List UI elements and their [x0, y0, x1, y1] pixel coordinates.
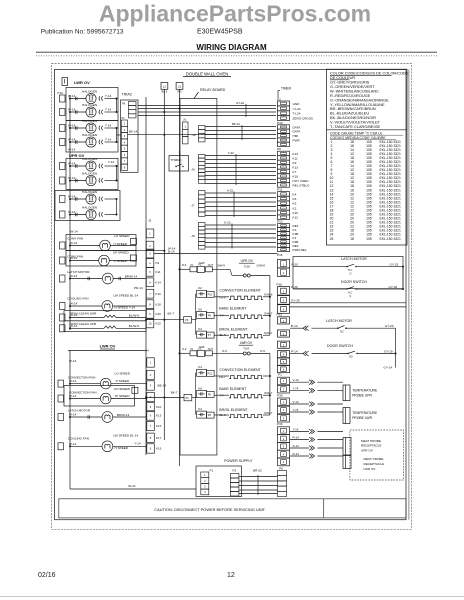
- svg-text:O-9: O-9: [222, 349, 227, 353]
- svg-text:OUT: OUT: [208, 348, 214, 351]
- svg-text:TRIAC: TRIAC: [122, 93, 133, 97]
- halogen lamp L2 (LWR OV): [70, 111, 86, 113]
- svg-text:P15: P15: [277, 253, 283, 257]
- svg-text:E30EW45PSB: E30EW45PSB: [197, 29, 243, 36]
- svg-text:FE-8: FE-8: [219, 296, 226, 300]
- svg-text:GY-29: GY-29: [384, 349, 393, 353]
- svg-text:THMDC: THMDC: [171, 158, 183, 162]
- svg-text:W-14: W-14: [70, 256, 78, 260]
- halogen lamp L1 (LWR OV): [70, 98, 86, 100]
- svg-text:UN SPEED: UN SPEED: [114, 387, 131, 391]
- halogen group box 3: [66, 159, 118, 190]
- latch motor 2 link: [395, 328, 397, 353]
- svg-text:K22: K22: [156, 322, 162, 326]
- corner box: [62, 78, 68, 86]
- svg-text:OUT: OUT: [208, 264, 214, 267]
- relay board box: [180, 99, 217, 456]
- svg-text:O-9: O-9: [260, 349, 265, 353]
- svg-text:G-22: G-22: [224, 221, 231, 225]
- svg-text:P8: P8: [277, 147, 281, 151]
- svg-text:Y-14: Y-14: [134, 441, 141, 445]
- svg-text:TEMPERATURE: TEMPERATURE: [352, 411, 378, 415]
- svg-text:UPR OV: UPR OV: [241, 259, 254, 263]
- svg-text:A-22: A-22: [227, 189, 233, 193]
- svg-text:P1: P1: [122, 116, 126, 120]
- svg-text:GY-23: GY-23: [385, 324, 394, 328]
- svg-text:UP SPEED: UP SPEED: [113, 251, 129, 255]
- halogen lamp U1 (UPR OV): [70, 165, 86, 167]
- svg-text:K4: K4: [293, 192, 297, 196]
- svg-text:GY-22: GY-22: [236, 101, 244, 105]
- svg-text:J3: J3: [148, 219, 152, 223]
- svg-text:PR-14: PR-14: [134, 286, 143, 290]
- latch-door box 1: [293, 257, 403, 289]
- svg-text:K8: K8: [198, 386, 202, 390]
- svg-text:W-14: W-14: [168, 247, 176, 251]
- bottom wire W-14: [70, 488, 196, 490]
- wire J3-3 to bus: [154, 253, 278, 255]
- svg-text:18: 18: [350, 237, 354, 241]
- svg-text:K12: K12: [293, 216, 299, 220]
- outer frame (dashed): [52, 64, 412, 530]
- svg-text:B-14: B-14: [291, 324, 298, 328]
- element output bus lower: [269, 354, 271, 416]
- svg-text:P12: P12: [58, 91, 64, 95]
- wire BK-14 to relay board: [128, 134, 217, 136]
- svg-text:LATCH MOTOR: LATCH MOTOR: [341, 257, 367, 261]
- svg-text:COLOR CODE/CODIGOS DE COLOR/CO: COLOR CODE/CODIGOS DE COLOR/CODE: [330, 72, 409, 76]
- svg-text:K19: K19: [156, 447, 162, 451]
- svg-text:NO: NO: [349, 356, 353, 359]
- svg-text:W-14: W-14: [68, 137, 76, 141]
- svg-text:HI SPEED: HI SPEED: [115, 394, 130, 398]
- svg-text:O/W-9: O/W-9: [217, 264, 226, 268]
- svg-text:T-14: T-14: [105, 107, 111, 111]
- triac box: [121, 100, 139, 172]
- svg-text:NOT USED: NOT USED: [293, 179, 310, 183]
- svg-text:W-14: W-14: [69, 379, 77, 383]
- svg-text:K9: K9: [293, 161, 297, 165]
- svg-text:POWER SUPPLY: POWER SUPPLY: [224, 459, 253, 463]
- svg-text:BROIL ELEMENT: BROIL ELEMENT: [219, 328, 248, 332]
- svg-text:P30: P30: [277, 393, 283, 397]
- svg-text:W-14: W-14: [68, 148, 76, 152]
- svg-text:J/1: J/1: [183, 118, 187, 122]
- frsh clean upr box: [64, 321, 146, 332]
- svg-text:V.-VIOLET/VIOLETA/VIOLET: V.-VIOLET/VIOLETA/VIOLET: [330, 121, 381, 125]
- svg-text:K11: K11: [293, 156, 299, 160]
- svg-text:P1: P1: [210, 469, 214, 473]
- svg-text:BR/W-14: BR/W-14: [117, 413, 130, 417]
- svg-text:L2: L2: [178, 85, 182, 89]
- svg-text:O/W-7: O/W-7: [264, 331, 273, 335]
- svg-text:WIRING DIAGRAM: WIRING DIAGRAM: [196, 43, 267, 52]
- svg-text:L SPEED: L SPEED: [114, 259, 128, 263]
- svg-text:W-14: W-14: [68, 123, 76, 127]
- svg-text:LWR OV: LWR OV: [100, 344, 116, 349]
- wire bundle GY-22 (L1/L2/triac to timer P2): [138, 105, 276, 107]
- svg-text:K14: K14: [293, 152, 299, 156]
- wire bundle T-22 (J6 to timer P8): [205, 155, 276, 157]
- left connector cells fans upper: [60, 242, 66, 249]
- svg-text:12: 12: [227, 572, 235, 579]
- svg-text:GY.-GREY/GRIS/GRIS: GY.-GREY/GRIS/GRIS: [330, 81, 370, 85]
- terminal L1: [161, 83, 168, 90]
- svg-text:W-14: W-14: [68, 94, 76, 98]
- svg-text:K16: K16: [293, 174, 299, 178]
- svg-text:O.-ORANGE/NARANJA/ORANGE: O.-ORANGE/NARANJA/ORANGE: [330, 98, 389, 102]
- svg-text:O/W-8: O/W-8: [257, 264, 266, 268]
- svg-text:HALOGEN: HALOGEN: [82, 119, 97, 123]
- svg-text:HALOGEN: HALOGEN: [82, 206, 97, 210]
- svg-text:BK 22: BK 22: [232, 122, 240, 126]
- svg-text:P9: P9: [122, 102, 126, 106]
- svg-text:K9: K9: [156, 261, 160, 265]
- wire bundle BK-22 (J2 to timer P10): [205, 126, 276, 128]
- svg-text:CODIGO MEDIDA CODE CA: CODIGO MEDIDA CODE CALIBRE: [330, 136, 386, 140]
- conv fan box 1: [66, 235, 136, 251]
- svg-text:CAUTION: DISCONNECT POWER BEFO: CAUTION: DISCONNECT POWER BEFORE SERVICI…: [154, 507, 265, 512]
- svg-text:K11: K11: [156, 270, 161, 274]
- svg-text:W-14: W-14: [69, 394, 77, 398]
- svg-text:RECEPTACLE: RECEPTACLE: [361, 444, 381, 448]
- svg-text:W-14: W-14: [69, 413, 77, 417]
- temperature probe upr connector: [343, 385, 350, 401]
- svg-text:UPR OV: UPR OV: [361, 448, 374, 452]
- svg-text:K7: K7: [293, 170, 297, 174]
- fan aux connector cells lwr: [132, 387, 138, 393]
- frsh clean lwr box: [64, 311, 146, 321]
- legend divider: [327, 129, 408, 131]
- svg-text:K6: K6: [198, 307, 202, 311]
- svg-text:TIMER: TIMER: [281, 87, 292, 91]
- svg-text:DOUBLE WALL OVEN: DOUBLE WALL OVEN: [186, 71, 229, 76]
- svg-text:W-14: W-14: [70, 274, 78, 278]
- svg-text:W-14: W-14: [70, 324, 78, 328]
- svg-text:LW SPEED BL-14: LW SPEED BL-14: [113, 433, 138, 437]
- svg-text:K20: K20: [156, 312, 162, 316]
- svg-text:P12: P12: [277, 312, 283, 316]
- svg-text:W-14: W-14: [70, 230, 78, 234]
- relay chain bus lower: [194, 373, 196, 415]
- svg-text:-J6: -J6: [191, 168, 195, 172]
- svg-text:K13: K13: [293, 165, 299, 169]
- svg-text:LO SPEED: LO SPEED: [115, 372, 131, 376]
- svg-text:Publication No: 5995672713: Publication No: 5995672713: [41, 29, 124, 36]
- wire bundle G-22 (J8 to timer P13): [205, 224, 276, 226]
- svg-text:T-22: T-22: [228, 151, 234, 155]
- svg-text:RELAY BOARD: RELAY BOARD: [200, 88, 226, 92]
- svg-text:K3: K3: [198, 365, 202, 369]
- svg-text:O-9: O-9: [182, 347, 187, 351]
- svg-text:T-14: T-14: [105, 94, 111, 98]
- svg-text:W-14: W-14: [68, 176, 76, 180]
- svg-text:IN: IN: [191, 348, 194, 351]
- svg-text:COOLING FAN: COOLING FAN: [68, 437, 89, 441]
- svg-text:HALOGEN: HALOGEN: [82, 133, 97, 137]
- wire GY-14: [395, 354, 397, 368]
- svg-text:LWR OV: LWR OV: [240, 341, 253, 345]
- caution box: [59, 499, 406, 518]
- svg-text:K4: K4: [198, 327, 202, 331]
- halogen right link wires: [116, 99, 118, 113]
- svg-text:CONV FAN: CONV FAN: [67, 237, 83, 241]
- halogen lamp L4 (LWR OV): [70, 141, 86, 143]
- svg-text:Y-L23: Y-L23: [293, 107, 301, 111]
- svg-text:Y-74: Y-74: [293, 408, 299, 412]
- svg-text:N C: N C: [348, 269, 353, 272]
- svg-text:W-14: W-14: [70, 302, 78, 306]
- section divider: [290, 306, 406, 308]
- conv fan box 2: [66, 251, 136, 267]
- svg-text:W-14: W-14: [68, 210, 76, 214]
- svg-text:FE-7: FE-7: [219, 375, 226, 379]
- svg-text:PWR REL: PWR REL: [293, 248, 307, 252]
- svg-text:BK.-BLACK/NEGRO/NOIR: BK.-BLACK/NEGRO/NOIR: [330, 116, 376, 120]
- svg-text:K17: K17: [156, 436, 162, 440]
- svg-text:P10: P10: [277, 121, 283, 125]
- svg-text:COOLING FAN: COOLING FAN: [67, 297, 88, 301]
- temperature probe lwr connector: [343, 408, 350, 424]
- svg-text:P13: P13: [277, 220, 283, 224]
- svg-text:-J7: -J7: [191, 204, 195, 208]
- svg-text:P-14: P-14: [291, 349, 298, 353]
- svg-text:GY-23: GY-23: [390, 262, 399, 266]
- svg-text:P13: P13: [208, 372, 213, 375]
- svg-text:CODE GAUGE TEMP °C CS: CODE GAUGE TEMP °C CSA UL: [330, 131, 383, 135]
- svg-text:GY-29: GY-29: [291, 299, 300, 303]
- left connector strip P12: [60, 95, 66, 102]
- svg-text:GND: GND: [293, 102, 301, 106]
- svg-text:R-6: R-6: [182, 263, 187, 267]
- svg-text:BAKE ELEMENT: BAKE ELEMENT: [219, 387, 247, 391]
- svg-text:Y-14: Y-14: [293, 427, 299, 431]
- halogen lamp U4 (UPR OV): [70, 214, 86, 216]
- svg-text:BL/W-6: BL/W-6: [129, 313, 140, 317]
- svg-text:BK 7: BK 7: [168, 312, 175, 316]
- svg-text:O: O: [350, 273, 352, 276]
- svg-text:NC: NC: [340, 331, 344, 334]
- svg-text:BL-8: BL-8: [220, 333, 227, 337]
- thermodisc THMDC: [169, 156, 189, 172]
- svg-text:MEAT PROBE: MEAT PROBE: [364, 457, 384, 461]
- svg-text:O/W-7: O/W-7: [264, 411, 273, 415]
- svg-text:G.-GREEN/VERDE/VERT: G.-GREEN/VERDE/VERT: [330, 85, 375, 89]
- left bus wire: [69, 95, 71, 330]
- svg-text:Y-74: Y-74: [293, 386, 299, 390]
- inner frame: [55, 70, 407, 520]
- bus L2 vertical: [179, 93, 181, 466]
- svg-text:LWR OV: LWR OV: [74, 80, 90, 85]
- svg-text:BL.-BLUE/AZUL/BLEU: BL.-BLUE/AZUL/BLEU: [330, 112, 369, 116]
- svg-text:HALOGEN: HALOGEN: [82, 172, 97, 176]
- svg-text:W-14: W-14: [69, 442, 77, 446]
- inner frame double line right: [408, 70, 410, 520]
- svg-text:LWR OV: LWR OV: [364, 467, 377, 471]
- left connector cells fans lower: [58, 380, 64, 387]
- halogen lamp U2 (UPR OV): [70, 180, 86, 182]
- svg-text:BK 6: BK 6: [162, 90, 168, 94]
- svg-text:BR.-BROWN/CAFE/BRUN: BR.-BROWN/CAFE/BRUN: [330, 107, 376, 111]
- svg-text:W.-WHITE/BLANCO/BLANC: W.-WHITE/BLANCO/BLANC: [330, 89, 379, 93]
- svg-text:K2: K2: [198, 286, 202, 290]
- svg-text:TEMPERATURE: TEMPERATURE: [352, 389, 378, 393]
- svg-text:K18: K18: [156, 302, 162, 306]
- svg-text:P2: P2: [233, 469, 237, 473]
- halogen group box 2: [66, 121, 118, 153]
- meat probe receptacle lwr connector: [343, 456, 351, 469]
- junction wire W-14 to fans: [136, 250, 164, 252]
- power supply wires: [239, 476, 278, 478]
- svg-text:BE-14: BE-14: [158, 384, 167, 388]
- svg-text:CONVECTION ELEMENT: CONVECTION ELEMENT: [219, 289, 261, 293]
- svg-text:25: 25: [330, 237, 334, 241]
- svg-text:A-14: A-14: [293, 444, 300, 448]
- svg-text:T-14: T-14: [108, 160, 114, 164]
- svg-text:Y.-YELLOW/AMARILLO/JAUNE: Y.-YELLOW/AMARILLO/JAUNE: [330, 103, 385, 107]
- svg-text:W-14: W-14: [70, 241, 78, 245]
- title underline: [36, 51, 437, 53]
- svg-text:BL/W-6: BL/W-6: [129, 324, 140, 328]
- svg-text:LATCH MOTOR: LATCH MOTOR: [326, 319, 352, 323]
- svg-text:BROIL ELEMENT: BROIL ELEMENT: [219, 408, 248, 412]
- bus L1 vertical: [163, 93, 165, 440]
- svg-text:DE COULEUR: DE COULEUR: [330, 76, 355, 80]
- svg-text:AppliancePartsPros.com: AppliancePartsPros.com: [99, 1, 371, 27]
- svg-text:RECEPTACLE: RECEPTACLE: [364, 462, 384, 466]
- svg-text:IN: IN: [191, 264, 194, 267]
- svg-text:BR-22: BR-22: [253, 469, 262, 473]
- svg-text:TLM: TLM: [244, 265, 250, 269]
- svg-text:P16: P16: [277, 422, 283, 426]
- svg-text:K5: K5: [293, 202, 297, 206]
- svg-text:K10: K10: [156, 405, 162, 409]
- svg-text:O/W-7: O/W-7: [264, 391, 273, 395]
- svg-text:105: 105: [366, 237, 372, 241]
- svg-text:R-14: R-14: [293, 435, 300, 439]
- svg-text:O/W-8: O/W-8: [264, 293, 273, 297]
- svg-text:R.-RED/ROJO/ROUGE: R.-RED/ROJO/ROUGE: [330, 94, 371, 98]
- svg-text:HALOGEN: HALOGEN: [82, 103, 97, 107]
- relay chain bus upper: [194, 294, 196, 335]
- color code legend box: [327, 69, 408, 245]
- svg-text:V-14: V-14: [293, 400, 299, 404]
- svg-text:H SPEED: H SPEED: [116, 379, 130, 383]
- svg-text:T-14: T-14: [105, 123, 111, 127]
- svg-text:W-14: W-14: [128, 484, 136, 488]
- svg-text:P6: P6: [279, 467, 283, 471]
- svg-text:H SPEED Y-14: H SPEED Y-14: [114, 306, 135, 310]
- svg-text:BK-7: BK-7: [171, 390, 178, 394]
- svg-text:HALOGEN: HALOGEN: [82, 157, 97, 161]
- bottom rule: [0, 596, 464, 598]
- svg-text:BR/W-14: BR/W-14: [125, 275, 138, 279]
- meat probe box: [350, 430, 404, 480]
- svg-text:MEAT PROBE: MEAT PROBE: [361, 439, 381, 443]
- svg-text:P10: P10: [277, 283, 283, 287]
- left bus wire lower: [69, 351, 71, 490]
- wire halogen to triac: [117, 134, 121, 136]
- svg-text:P10: P10: [208, 293, 213, 296]
- svg-text:T-L24: T-L24: [293, 112, 301, 116]
- svg-text:G-20: G-20: [291, 262, 298, 266]
- svg-text:N C: N C: [348, 291, 353, 294]
- dotted separator: [36, 55, 437, 57]
- svg-text:P1: P1: [278, 373, 282, 377]
- svg-text:W-14: W-14: [68, 161, 76, 165]
- halogen group box 1: [66, 88, 118, 121]
- convection fan box lwr: [64, 386, 135, 407]
- latch-door box 1 right link: [402, 267, 404, 289]
- svg-text:DOOR SWITCH: DOOR SWITCH: [327, 344, 353, 348]
- svg-text:T-14: T-14: [105, 137, 111, 141]
- meat probe receptacle upr connector: [343, 438, 351, 456]
- svg-text:EKL-150 3321: EKL-150 3321: [380, 237, 402, 241]
- svg-text:K14: K14: [156, 280, 162, 284]
- lwr section top line: [68, 350, 146, 352]
- connector J4 strip: [147, 358, 155, 367]
- svg-text:02/16: 02/16: [38, 572, 56, 579]
- svg-text:CONVECTION ELEMENT: CONVECTION ELEMENT: [219, 368, 261, 372]
- svg-text:-J8: -J8: [191, 234, 195, 238]
- halogen upper link wires: [116, 166, 118, 181]
- svg-text:BK-14: BK-14: [129, 130, 138, 134]
- terminal L2: [176, 83, 183, 90]
- halogen group box 4: [55, 191, 120, 221]
- element output bus upper: [269, 276, 271, 336]
- svg-text:REL STBLO: REL STBLO: [293, 183, 311, 187]
- svg-text:K2: K2: [293, 206, 297, 210]
- svg-text:-J2: -J2: [192, 133, 196, 137]
- halogen lamp L3 (LWR OV): [70, 127, 86, 129]
- svg-text:W-14: W-14: [70, 313, 78, 317]
- svg-text:PWR: PWR: [293, 138, 301, 142]
- strip mount line: [145, 97, 147, 455]
- svg-text:HALOGEN: HALOGEN: [82, 90, 97, 94]
- halogen lamp U3 (UPR OV): [70, 198, 86, 200]
- svg-text:TLM: TLM: [243, 347, 249, 351]
- svg-text:P11: P11: [277, 188, 283, 192]
- svg-text:ZERO CROSS: ZERO CROSS: [293, 117, 313, 121]
- svg-text:P-30: P-30: [291, 285, 298, 289]
- fan aux connector cells: [131, 239, 137, 245]
- svg-text:W-14: W-14: [68, 194, 76, 198]
- svg-text:GY-14: GY-14: [384, 366, 393, 370]
- svg-text:L1: L1: [163, 85, 167, 89]
- power supply box: [196, 466, 242, 497]
- svg-text:V-14: V-14: [293, 378, 299, 382]
- svg-text:W-14: W-14: [68, 107, 76, 111]
- svg-text:LW SPEED BL-14: LW SPEED BL-14: [113, 294, 138, 298]
- svg-text:BAKE ELEMENT: BAKE ELEMENT: [219, 307, 247, 311]
- svg-text:K6: K6: [293, 197, 297, 201]
- wire bundle A-22 (J7 to timer P11): [205, 192, 276, 194]
- svg-text:DOOR SWITCH: DOOR SWITCH: [341, 280, 367, 284]
- svg-text:R-14: R-14: [293, 452, 300, 456]
- svg-text:PROBE UPR: PROBE UPR: [352, 394, 372, 398]
- svg-text:H SPEED: H SPEED: [115, 446, 129, 450]
- svg-text:O/W-7: O/W-7: [264, 312, 273, 316]
- svg-text:T.-TAN/CAFE CLARO/BEIGE: T.-TAN/CAFE CLARO/BEIGE: [330, 125, 381, 129]
- svg-text:K10: K10: [293, 211, 299, 215]
- svg-text:PROBE LWR: PROBE LWR: [352, 416, 372, 420]
- svg-text:K13: K13: [156, 414, 162, 418]
- svg-text:HALOGEN: HALOGEN: [82, 190, 97, 194]
- svg-text:K16: K16: [156, 292, 162, 296]
- connector J3: [146, 229, 154, 238]
- svg-text:GY-32: GY-32: [389, 285, 398, 289]
- svg-text:LO SPEED: LO SPEED: [114, 234, 130, 238]
